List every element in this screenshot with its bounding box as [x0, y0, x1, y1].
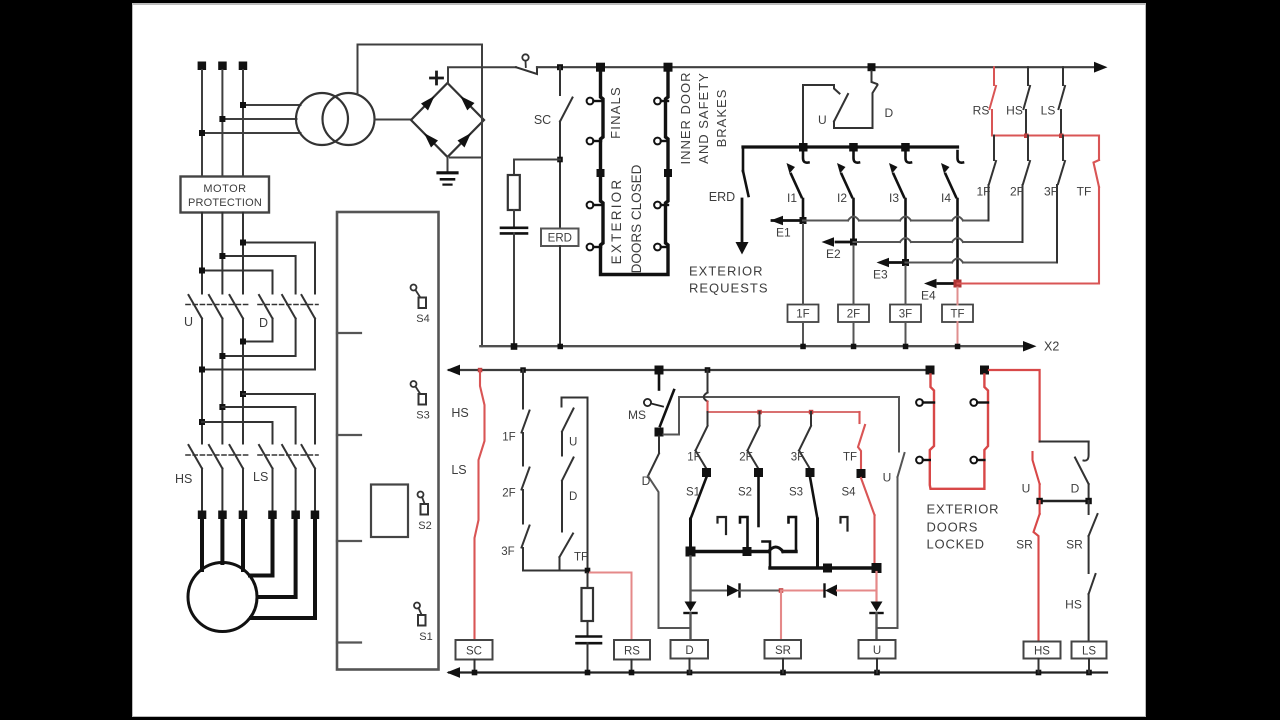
svg-text:SC: SC — [466, 646, 482, 658]
svg-text:INNER DOOR: INNER DOOR — [678, 71, 693, 164]
arrow E4 — [924, 279, 937, 289]
contact I1 — [803, 151, 809, 163]
contactor U poles — [189, 295, 203, 319]
svg-text:1F: 1F — [796, 309, 809, 321]
svg-text:SR: SR — [1066, 538, 1083, 552]
contact RS — [993, 67, 995, 85]
contact 1F top — [993, 136, 995, 161]
junction dots UD — [199, 240, 246, 426]
svg-text:FINALS: FINALS — [608, 86, 623, 139]
S2 landing hook — [740, 517, 748, 548]
svg-text:E4: E4 — [921, 289, 936, 303]
diode row red — [781, 590, 823, 592]
SC wire below ERD box — [559, 246, 561, 346]
junction I1 — [799, 143, 808, 152]
wire transformer to bridge — [375, 119, 412, 121]
svg-text:S3: S3 — [789, 487, 803, 499]
coil box 1F — [788, 305, 819, 323]
contact I2 — [854, 151, 860, 163]
contact HS top — [1027, 67, 1029, 85]
rail E1 — [803, 220, 989, 222]
inner chain terminal — [664, 63, 673, 72]
coil box D — [671, 640, 709, 659]
bridge diode top-right — [460, 96, 474, 110]
junction L1 tap — [199, 130, 205, 136]
contact 2F mid — [759, 412, 761, 425]
rail E3 — [906, 262, 1057, 264]
svg-text:TF: TF — [843, 452, 857, 464]
svg-text:E2: E2 — [826, 247, 841, 261]
contact D lower — [658, 437, 660, 453]
svg-text:3F: 3F — [501, 546, 514, 558]
floor rail A — [691, 550, 797, 553]
X2 bus — [480, 345, 1024, 347]
svg-text:S1: S1 — [686, 487, 700, 499]
svg-text:HS: HS — [1006, 104, 1023, 118]
plus sign — [431, 72, 443, 84]
svg-text:D: D — [642, 474, 651, 488]
svg-text:MS: MS — [628, 408, 646, 422]
svg-text:TF: TF — [574, 552, 588, 564]
junction RS node — [585, 568, 591, 574]
supply terminal L1 — [198, 62, 207, 71]
svg-text:REQUESTS: REQUESTS — [689, 281, 769, 296]
box terminal tick 2 — [337, 434, 361, 436]
wire right vertical to lower bus — [481, 45, 483, 347]
junction L2 tap — [219, 116, 225, 122]
junction I2 — [849, 143, 858, 152]
wire L3 to transformer — [243, 104, 301, 106]
svg-text:I1: I1 — [787, 191, 797, 205]
junction 1F column tap — [520, 367, 526, 373]
doors contact 1 — [587, 202, 594, 209]
spare hook S3 left — [789, 517, 797, 552]
svg-text:E3: E3 — [873, 268, 888, 282]
crossover to LS1 — [202, 422, 273, 444]
svg-text:S4: S4 — [841, 487, 856, 499]
svg-text:ERD: ERD — [709, 190, 735, 204]
contactor LS poles — [259, 445, 273, 469]
spare hook S1 right — [718, 517, 727, 534]
wire L3 down — [242, 70, 244, 177]
transformer T1 secondary — [323, 93, 375, 145]
svg-text:EXTERIOR: EXTERIOR — [927, 502, 1000, 517]
wire L2 to transformer — [222, 118, 296, 120]
damper resistor — [587, 573, 589, 588]
damper capacitor — [577, 635, 602, 638]
U outputs down — [201, 319, 203, 444]
contact LS top — [1062, 67, 1064, 85]
contactor D poles — [259, 295, 273, 319]
svg-text:PROTECTION: PROTECTION — [188, 197, 262, 209]
snubber capacitor — [501, 227, 527, 230]
junction doors chain 2 — [980, 366, 989, 375]
coil box 3F — [890, 305, 921, 323]
svg-text:LS: LS — [451, 463, 466, 477]
chain2 contact 2 — [970, 457, 977, 464]
chain2 contact 1 — [970, 399, 977, 406]
svg-text:HS: HS — [451, 406, 468, 420]
crossback D2 — [222, 319, 295, 357]
svg-text:2F: 2F — [1010, 185, 1024, 199]
red wire to door circuit — [989, 370, 1040, 442]
contact D right — [1084, 442, 1089, 461]
motor protection box — [181, 177, 270, 213]
diode D1 right-pointing — [727, 585, 739, 597]
svg-text:TF: TF — [1077, 185, 1092, 199]
crossback D3 — [202, 319, 315, 370]
wire to snubber — [514, 159, 560, 161]
junction L3 tap — [240, 102, 246, 108]
bridge diode top-left — [421, 96, 435, 111]
svg-text:ERD: ERD — [548, 233, 572, 245]
svg-text:X2: X2 — [1044, 340, 1059, 354]
junction U-D tap — [868, 63, 876, 71]
finals chain terminal — [596, 63, 605, 72]
svg-text:I4: I4 — [941, 191, 951, 205]
rail E4 red — [958, 283, 1100, 285]
junction red chain tap — [478, 368, 483, 373]
arrow E1 — [771, 216, 784, 226]
svg-text:3F: 3F — [1044, 185, 1058, 199]
aux column U D TF — [562, 398, 588, 571]
contact S4 red — [861, 478, 875, 515]
coil box 2F — [838, 305, 869, 323]
selector column 1F 2F 3F — [522, 370, 524, 409]
crossover to LS2 — [222, 407, 295, 444]
junction dots bottom bus — [472, 670, 1092, 676]
contact SR right — [1088, 501, 1090, 514]
U selector switch — [834, 94, 848, 122]
contact 3F mid — [810, 412, 812, 425]
svg-text:2F: 2F — [502, 488, 515, 500]
svg-text:E1: E1 — [776, 226, 791, 240]
svg-text:BRAKES: BRAKES — [714, 89, 729, 148]
inner contact 3 — [654, 202, 661, 209]
finals contact 2 — [587, 138, 594, 145]
svg-text:U: U — [1022, 482, 1031, 496]
coil box SC — [456, 640, 493, 660]
svg-text:HS: HS — [1065, 598, 1082, 612]
junction SC tap — [557, 64, 563, 70]
svg-text:S3: S3 — [416, 410, 429, 422]
coil box LS — [1072, 642, 1107, 659]
svg-text:AND SAFETY: AND SAFETY — [696, 72, 711, 164]
svg-text:I3: I3 — [889, 191, 899, 205]
supply terminal L3 — [239, 62, 248, 71]
inner contact 1 — [654, 98, 661, 105]
svg-text:2F: 2F — [739, 452, 752, 464]
svg-text:S2: S2 — [738, 487, 752, 499]
junction doors chain 1 — [926, 366, 935, 375]
crossover L3 to D3 — [243, 243, 315, 294]
svg-text:DOORS: DOORS — [927, 520, 979, 535]
junction red feed tap — [705, 367, 711, 373]
contact S3 — [810, 477, 818, 519]
controller box — [337, 212, 439, 670]
coil box RS — [614, 640, 650, 660]
wire L3 below protection — [242, 213, 244, 294]
svg-text:1F: 1F — [976, 185, 990, 199]
svg-text:D: D — [885, 106, 894, 120]
inner chain mid terminal — [664, 169, 672, 177]
svg-text:SC: SC — [534, 113, 551, 127]
box terminal tick 4 — [337, 641, 361, 643]
red link to RS coil — [590, 573, 632, 641]
svg-text:D: D — [1071, 482, 1080, 496]
svg-text:D: D — [569, 491, 577, 503]
safety switch blade — [516, 67, 537, 74]
motor lead terminals — [198, 511, 319, 520]
red interlock bus — [992, 136, 1099, 161]
SR coil drop — [780, 591, 782, 641]
ground — [447, 157, 449, 172]
wire L1 below protection — [201, 213, 203, 294]
crossback D1 — [243, 319, 273, 342]
D selector switch — [872, 71, 878, 84]
inner contact 4 — [654, 244, 661, 251]
contact U lower — [898, 397, 900, 452]
switch MS — [658, 374, 661, 390]
svg-text:DOORS CLOSED: DOORS CLOSED — [629, 164, 644, 273]
finals contact 1 — [587, 98, 594, 105]
contact HS right — [1089, 574, 1096, 594]
call red bus — [708, 411, 860, 413]
lower control bus — [449, 369, 929, 371]
svg-text:U: U — [883, 471, 892, 485]
svg-text:RS: RS — [624, 646, 640, 658]
svg-text:3F: 3F — [899, 309, 912, 321]
crossover L1 to D1 — [202, 271, 273, 294]
rectifier bridge diamond — [411, 83, 484, 157]
wire L1 to transformer — [202, 132, 301, 134]
motor leads thin — [201, 469, 203, 512]
transformer T1 primary — [296, 93, 348, 145]
crossover to LS3 — [243, 394, 315, 444]
red feed column — [707, 370, 709, 393]
coil box TF — [942, 305, 973, 323]
svg-text:SR: SR — [1016, 538, 1033, 552]
svg-text:LS: LS — [1082, 646, 1096, 658]
svg-text:MOTOR: MOTOR — [203, 183, 246, 195]
svg-text:U: U — [184, 315, 193, 329]
lower bus arrow — [447, 365, 461, 376]
top bus left segment — [482, 66, 516, 68]
inner contact 2 — [654, 138, 661, 145]
svg-text:D: D — [685, 645, 693, 657]
floor rail B — [770, 566, 877, 569]
svg-text:3F: 3F — [791, 452, 804, 464]
doors chain mid terminal — [597, 169, 605, 177]
wire L1 down — [201, 70, 203, 177]
supply terminal L2 — [218, 62, 227, 71]
SC switch — [559, 67, 561, 95]
motor M — [188, 563, 257, 632]
contact I4 — [958, 151, 964, 163]
motor wires thick — [202, 519, 315, 618]
diode row left — [689, 557, 691, 602]
link bar lower — [1040, 500, 1089, 502]
svg-text:U: U — [818, 113, 827, 127]
switch S2 — [418, 492, 424, 498]
svg-text:RS: RS — [973, 104, 990, 118]
junction dots X2 bus — [511, 343, 518, 350]
diode D2 left-pointing — [825, 585, 837, 597]
contact U right red — [1033, 452, 1040, 484]
svg-text:2F: 2F — [847, 309, 860, 321]
svg-text:S1: S1 — [419, 631, 432, 643]
svg-text:HS: HS — [1034, 646, 1050, 658]
chain1 contact 2 — [916, 457, 923, 464]
contact 2F top — [1027, 136, 1029, 161]
junction MS tap — [655, 366, 664, 375]
svg-text:I2: I2 — [837, 191, 847, 205]
crossover L2 to D2 — [222, 256, 295, 294]
wire transformer top tap — [358, 45, 483, 95]
bridge diode bottom-right — [458, 133, 472, 148]
link bar upper — [1040, 441, 1089, 443]
top bus main — [537, 66, 1096, 68]
box terminal tick 1 — [337, 332, 361, 334]
svg-text:LS: LS — [1041, 104, 1056, 118]
contactor HS poles — [189, 445, 203, 469]
switch S4 — [411, 285, 417, 291]
wire L2 down — [221, 70, 223, 177]
gray feedback rail — [664, 397, 900, 435]
ERD switch — [742, 147, 745, 171]
wire bridge minus — [450, 157, 482, 159]
diode D4 down to U coil — [875, 572, 877, 601]
svg-text:SR: SR — [775, 645, 791, 657]
bottom return bus — [449, 671, 1107, 673]
svg-text:U: U — [873, 645, 881, 657]
svg-text:EXTERIOR: EXTERIOR — [689, 264, 763, 279]
svg-text:TF: TF — [950, 309, 964, 321]
spare hook S4 left — [841, 517, 848, 531]
svg-text:LOCKED: LOCKED — [927, 537, 985, 552]
contact TF mid red — [858, 412, 860, 423]
contact TF red — [1094, 160, 1100, 187]
svg-text:1F: 1F — [502, 432, 515, 444]
HS LS red chain — [475, 370, 485, 640]
diode D3 down to D coil — [685, 602, 697, 612]
contact I3 — [906, 151, 912, 163]
ERD label box — [541, 229, 579, 247]
svg-text:D: D — [259, 316, 268, 330]
snubber resistor — [513, 160, 515, 176]
arrow E3 — [877, 258, 890, 268]
svg-text:EXTERIOR: EXTERIOR — [609, 178, 624, 265]
contact SR left red — [1039, 501, 1041, 514]
finals chain conductor — [601, 71, 669, 275]
svg-text:1F: 1F — [687, 452, 700, 464]
contact 1F mid — [707, 412, 709, 425]
switch S1 — [414, 603, 420, 609]
junction resistor tap — [557, 157, 563, 163]
inner door bus — [743, 145, 958, 148]
box terminal tick 3 — [337, 540, 361, 542]
svg-text:S4: S4 — [416, 313, 429, 325]
svg-text:U: U — [569, 437, 577, 449]
inner module box — [371, 485, 408, 538]
arrow E2 — [822, 237, 835, 247]
rail E2 — [854, 241, 1023, 243]
wire bridge plus to bus — [448, 67, 482, 83]
doors locked chain 1 — [930, 375, 988, 489]
svg-text:LS: LS — [253, 470, 268, 484]
safety switch hinge circle — [522, 54, 528, 60]
top bus arrow — [1094, 62, 1108, 73]
junction I3 — [901, 143, 910, 152]
junction SR tap — [779, 588, 784, 593]
svg-text:S2: S2 — [418, 520, 431, 532]
switch S3 — [411, 381, 417, 387]
contact S1 — [691, 477, 707, 519]
contact S2 open — [757, 477, 760, 526]
coil box SR — [765, 640, 802, 659]
doors contact 2 — [587, 244, 594, 251]
coil box HS — [1024, 642, 1061, 659]
coil box U — [859, 640, 896, 659]
bridge diode bottom-left — [424, 133, 438, 148]
chain1 contact 1 — [916, 399, 923, 406]
contact 3F top — [1062, 136, 1064, 161]
wire L2 below protection — [221, 213, 223, 294]
svg-text:HS: HS — [175, 472, 192, 486]
